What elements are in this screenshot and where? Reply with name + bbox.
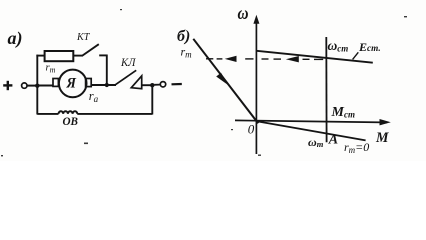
M axis [235, 119, 391, 125]
brush left [53, 79, 58, 87]
natural characteristic Ест line [257, 51, 373, 63]
svg-text:б): б) [177, 28, 190, 45]
resistor rт [45, 51, 74, 61]
plus terminal sign [3, 81, 12, 90]
wire bottom branch with field winding [37, 113, 58, 115]
wire right vertical [151, 85, 153, 114]
svg-text:КЛ: КЛ [120, 57, 137, 69]
omega axis [253, 15, 259, 154]
wire resistor to КТ pivot [73, 55, 82, 57]
motor armature Я [59, 70, 87, 98]
svg-text:Ест.: Ест. [358, 40, 381, 54]
Мст vertical line [325, 37, 327, 142]
node right junction [150, 83, 154, 87]
svg-text:М: М [375, 130, 389, 146]
svg-text:Я: Я [66, 76, 77, 92]
right terminal circle [160, 82, 165, 87]
node top branch junction [105, 83, 109, 87]
wire junction to right terminal [154, 84, 160, 86]
minus terminal sign [172, 83, 182, 86]
svg-text:А: А [328, 133, 338, 148]
switch КЛ contact triangle [131, 76, 141, 89]
wire main to armature [37, 85, 53, 87]
arrowhead on rт line [216, 73, 228, 85]
svg-text:ОВ: ОВ [63, 116, 79, 128]
left terminal circle [22, 83, 27, 88]
wire bottom branch right [77, 113, 152, 115]
dashed transition arrow [206, 56, 323, 63]
wire left vertical [36, 55, 38, 115]
switch КЛ blade [116, 70, 137, 84]
line rт=0 characteristic [257, 121, 366, 140]
brush right [86, 79, 92, 87]
line rт braking characteristic [193, 39, 258, 124]
svg-text:ω: ω [238, 3, 249, 23]
switch КТ blade [82, 44, 99, 56]
svg-text:rт=0: rт=0 [344, 140, 369, 155]
wire terminal to left junction [27, 85, 37, 87]
node left junction [35, 84, 39, 88]
svg-text:а): а) [8, 28, 23, 49]
wire top branch left [36, 55, 44, 57]
wire armature to КЛ [91, 84, 116, 86]
wire КТ fixed contact [99, 54, 107, 56]
field winding ОВ coil [59, 111, 78, 114]
wire top branch right vertical [106, 55, 108, 86]
wire КЛ to right junction [142, 84, 153, 86]
svg-text:КТ: КТ [76, 32, 91, 43]
svg-text:0: 0 [248, 122, 255, 137]
leader slash to Ест label [353, 52, 359, 59]
